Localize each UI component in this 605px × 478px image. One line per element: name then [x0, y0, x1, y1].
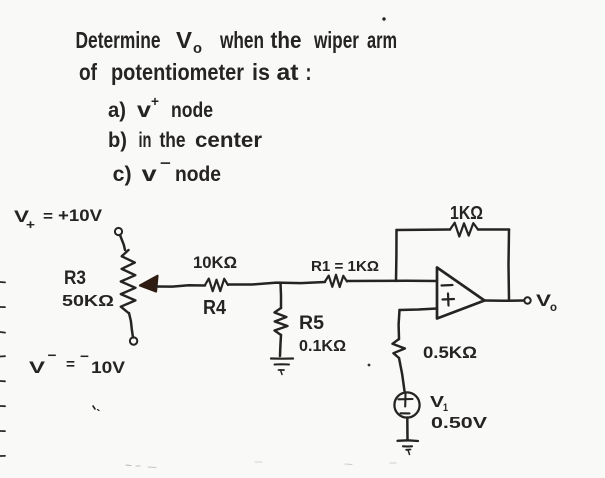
page edge marks: [0, 281, 5, 283]
svg-text:+10V: +10V: [58, 206, 103, 225]
wire R2 to source: [399, 358, 405, 391]
wire pot top: [120, 235, 125, 250]
svg-text:0.5KΩ: 0.5KΩ: [423, 343, 477, 362]
svg-text:R3: R3: [64, 268, 86, 289]
wire feedback top right: [478, 228, 509, 231]
svg-text:=: =: [43, 208, 53, 225]
resistor R1: [325, 275, 347, 287]
svg-text:arm: arm: [367, 27, 397, 53]
wire R5 branch: [279, 283, 282, 308]
svg-text:node: node: [171, 99, 213, 122]
svg-text:when: when: [219, 27, 264, 53]
svg-text:v: v: [142, 163, 157, 186]
svg-text:+: +: [151, 93, 159, 109]
svg-text:V: V: [176, 27, 193, 53]
svg-text:in: in: [139, 129, 152, 152]
op-amp minus input symbol: [442, 284, 453, 287]
wire R5 to ground: [280, 335, 281, 356]
svg-text:0.50V: 0.50V: [431, 415, 487, 432]
svg-text:=: =: [66, 356, 75, 373]
svg-text:R1 = 1KΩ: R1 = 1KΩ: [311, 258, 379, 275]
op-amp U1: [437, 268, 485, 319]
wire feedback left vertical: [395, 230, 398, 281]
wire output: [485, 299, 525, 302]
svg-text:R5: R5: [299, 313, 324, 334]
svg-text:at: at: [277, 59, 299, 85]
svg-text:center: center: [195, 129, 262, 152]
svg-text:+: +: [26, 217, 35, 232]
svg-text:1: 1: [443, 402, 448, 414]
svg-text:50KΩ: 50KΩ: [62, 293, 114, 310]
stray dot top: [383, 18, 385, 20]
svg-text:0.1KΩ: 0.1KΩ: [299, 338, 346, 355]
ground R5: [271, 357, 293, 359]
svg-text:R4: R4: [203, 297, 227, 319]
wire feedback top left: [397, 228, 451, 231]
svg-text:v: v: [137, 99, 151, 122]
stray dot mid: [368, 364, 370, 366]
svg-text:the: the: [160, 129, 186, 152]
wire plus input: [400, 309, 438, 311]
resistor RF 1K: [450, 223, 478, 237]
svg-text:is: is: [252, 59, 270, 85]
svg-text:o: o: [550, 300, 557, 314]
svg-text:of: of: [79, 59, 97, 85]
svg-text:−: −: [80, 348, 89, 364]
wire R4 to R1: [228, 282, 325, 285]
resistor R5: [274, 308, 287, 335]
source V1: [394, 392, 419, 417]
wire pot bottom: [129, 313, 133, 338]
stray scribble: [93, 406, 95, 409]
resistor R4: [205, 279, 228, 292]
op-amp plus input symbol: [443, 298, 455, 301]
svg-text:V: V: [29, 358, 46, 377]
svg-text:potentiometer: potentiometer: [111, 59, 244, 85]
wire feedback right vertical: [507, 230, 510, 301]
node V- terminal: [130, 337, 137, 344]
svg-text:Determine: Determine: [76, 27, 161, 53]
svg-text:10KΩ: 10KΩ: [193, 253, 237, 272]
node Vo terminal: [524, 297, 530, 303]
svg-text:c): c): [113, 163, 132, 186]
faint bottom speckles: [126, 464, 131, 467]
svg-text:the: the: [271, 27, 302, 53]
ground V1: [398, 439, 419, 442]
resistor R2 0.5K: [392, 339, 405, 358]
svg-text:1KΩ: 1KΩ: [450, 203, 483, 223]
svg-text:wiper: wiper: [313, 27, 359, 53]
node V+ terminal: [115, 228, 122, 235]
svg-text::: :: [306, 59, 312, 85]
svg-text:a): a): [108, 99, 126, 122]
svg-text:o: o: [193, 40, 202, 57]
wiper arm arrow: [140, 276, 158, 292]
potentiometer R3: [121, 250, 136, 313]
svg-text:node: node: [175, 163, 221, 186]
wire wiper to R4: [156, 285, 205, 286]
svg-text:10V: 10V: [91, 358, 126, 377]
svg-text:b): b): [108, 129, 127, 152]
svg-text:−: −: [48, 347, 57, 363]
wire source to ground: [406, 418, 409, 440]
svg-text:−: −: [160, 155, 171, 172]
wire R1 to op-amp: [347, 279, 437, 282]
